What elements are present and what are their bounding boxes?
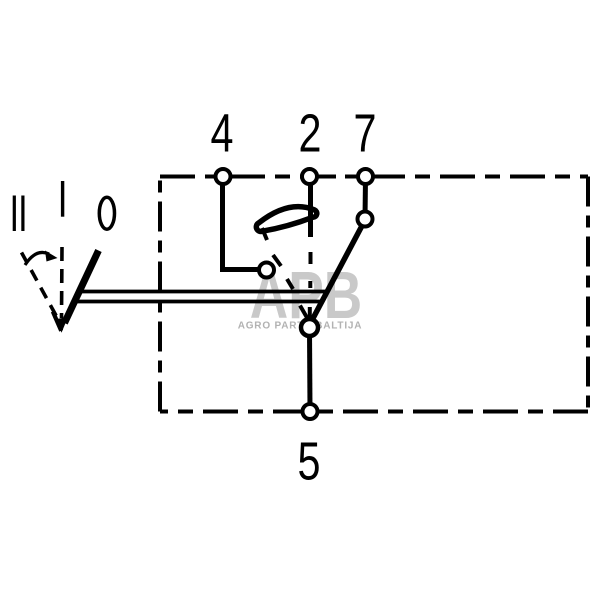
- terminal 2 circle: [302, 169, 317, 184]
- border stubs at terminals: [231, 175, 392, 179]
- contact circle of terminal 4 branch: [259, 263, 274, 278]
- actuator double link top line: [79, 290, 328, 294]
- border bottom: [160, 410, 588, 414]
- wire terminal 2 down: [308, 178, 313, 237]
- terminal 5 circle: [303, 404, 318, 419]
- border top: [160, 175, 588, 179]
- watermark APB logo: [238, 257, 363, 332]
- fork prong at pivot: [300, 306, 308, 319]
- lever (position 0): [65, 251, 99, 324]
- svg-text:5: 5: [298, 431, 321, 492]
- terminal 4 circle: [216, 169, 231, 184]
- border left: [158, 177, 162, 412]
- lever position II dashed: [22, 253, 59, 321]
- enclosure dash-dot border: [160, 177, 588, 412]
- svg-text:4: 4: [211, 103, 234, 164]
- switch arm from terminal 7 contact to pivot: [310, 221, 365, 324]
- contact circle under terminal 7: [358, 212, 373, 227]
- lever arrowhead: [53, 312, 61, 331]
- wire terminal 7 stub: [363, 178, 369, 219]
- wire pivot to terminal 5: [307, 330, 313, 410]
- position label I: [61, 181, 64, 217]
- position label II: [13, 196, 25, 232]
- wire terminal 2 over bridge: [308, 205, 313, 237]
- svg-text:2: 2: [299, 103, 322, 164]
- motion arrowhead: [45, 251, 58, 262]
- lever position I dashed: [60, 247, 64, 318]
- terminal 7 circle: [358, 169, 373, 184]
- motion arrow arc: [25, 252, 49, 265]
- dashed link terminal 2 to pivot: [308, 252, 313, 317]
- contact bridge (curved bar): [256, 207, 316, 232]
- wire terminal 4 to contact: [223, 178, 259, 270]
- pivot circle: [301, 319, 318, 336]
- border right: [586, 177, 590, 412]
- svg-text:7: 7: [354, 103, 377, 164]
- actuator double link bottom line: [75, 300, 323, 304]
- dashed link bridge end to pivot: [262, 228, 293, 289]
- position label 0: [99, 197, 114, 229]
